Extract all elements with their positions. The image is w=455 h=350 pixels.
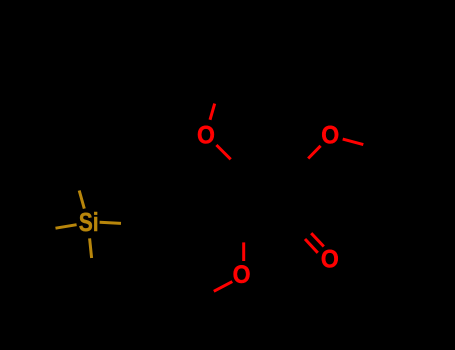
O-C ring bond stub up from bottom O [242,242,245,261]
svg-text:O: O [321,122,339,150]
svg-text:Si: Si [79,208,99,236]
methoxy oxygen O top-left [197,122,215,150]
O-C ring bond stub down-left from top-right O [308,146,320,159]
svg-text:O: O [197,122,215,150]
carbonyl oxygen O bottom-right [321,246,339,274]
methoxy oxygen O bottom [233,261,251,289]
Si methyl bond stub up [79,191,84,209]
O-CH3 bond stub up from top-left O [210,104,215,120]
C=O double bond line upper [311,233,324,246]
C=O double bond line lower [305,239,318,253]
svg-text:O: O [321,246,339,274]
O-CH3 bond stub down-left from bottom O [214,282,233,292]
O-CH2 bond stub right from top-right O [343,139,364,145]
ethoxy oxygen O top-right [321,122,339,150]
silicon atom label Si [79,208,99,236]
Si-C bond stub right [100,222,121,223]
Si methyl bond stub left [56,225,77,229]
svg-text:O: O [233,261,251,289]
Si methyl bond stub down [90,238,92,258]
O-C ring bond stub down-right from top-left O [216,145,230,159]
